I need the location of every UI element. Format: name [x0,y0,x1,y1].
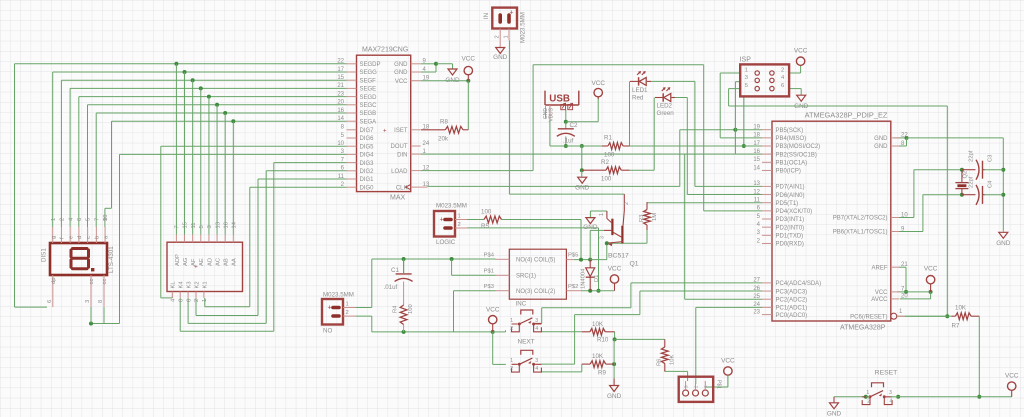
resistor R7 [955,313,971,320]
svg-text:R10: R10 [597,337,609,344]
svg-text:DIG3: DIG3 [360,161,375,167]
svg-text:PB7(XTAL2/TOSC2): PB7(XTAL2/TOSC2) [833,216,888,222]
switch SET S2 [521,350,533,355]
svg-text:DOUT: DOUT [391,144,408,150]
svg-text:GND: GND [827,411,842,417]
svg-text:12: 12 [753,189,760,195]
ground [496,48,505,54]
svg-text:AA: AA [232,258,238,266]
wire DIG3-K4 net [274,162,347,164]
svg-text:14: 14 [753,165,760,171]
svg-text:AD: AD [207,258,213,266]
svg-text:PD2(INT0): PD2(INT0) [776,225,805,231]
svg-text:K2: K2 [194,281,200,288]
connector K1 LED display header [167,242,243,291]
svg-text:P$1: P$1 [484,269,494,275]
wire relay P$5 row [574,259,590,261]
svg-text:PC3(ADC3): PC3(ADC3) [776,289,808,295]
wire SEGE net [70,87,346,89]
wire Q1 collector gnd link [590,210,607,212]
svg-text:100: 100 [601,176,612,183]
svg-text:LED1: LED1 [632,87,648,94]
svg-text:P$4: P$4 [484,253,495,259]
svg-text:12: 12 [423,165,430,171]
svg-text:PC4(ADC4/SDA): PC4(ADC4/SDA) [776,281,822,287]
svg-text:GND: GND [874,144,888,150]
svg-text:C3: C3 [988,155,994,162]
svg-text:LOAD: LOAD [391,169,408,175]
svg-text:3: 3 [535,318,538,324]
wire SEGF net [61,79,346,81]
wire NEXT pin4 - R10 [541,331,582,333]
capacitor C2 [558,128,574,130]
wire DIG1-K2 net [258,178,347,180]
svg-text:15: 15 [337,75,344,81]
connector IN M023.5MM [492,8,517,29]
wire SEGA net [112,120,347,122]
svg-text:1: 1 [510,318,513,324]
wire AREF to VCC [899,266,906,268]
svg-text:VCC: VCC [721,358,735,365]
svg-text:3: 3 [889,390,892,396]
svg-text:SEGC: SEGC [360,103,378,109]
wire SEGDP net [15,63,347,65]
diode D1 1N4004 [589,260,591,268]
svg-text:RESET: RESET [875,370,898,377]
svg-text:R5: R5 [481,223,489,230]
svg-text:23: 23 [337,91,344,97]
vcc [1008,382,1016,390]
svg-text:SRC(1): SRC(1) [516,274,536,280]
svg-text:DIG4: DIG4 [360,153,375,159]
svg-text:24: 24 [753,302,760,308]
svg-text:LED2: LED2 [657,103,673,110]
usb connector J2 [545,91,579,105]
svg-text:2: 2 [624,202,630,205]
svg-text:10: 10 [901,212,908,218]
wire VCC AVCC [897,291,931,293]
svg-text:21: 21 [337,83,344,89]
crystal Q2 [955,182,968,184]
svg-text:R7: R7 [952,323,960,330]
svg-text:VBUS: VBUS [548,107,554,121]
svg-text:6: 6 [186,299,192,302]
wire SCK net (MAX CLK - ISP3 - PB5) [427,185,679,187]
ground [797,95,806,101]
svg-text:CLK: CLK [396,185,408,191]
wire reset button rail [834,396,866,398]
svg-text:PB3(MOSI/OC2): PB3(MOSI/OC2) [776,144,821,150]
svg-text:PD1(TXD): PD1(TXD) [776,234,804,240]
svg-text:KL: KL [171,281,177,289]
ground [586,218,595,224]
svg-text:VCC: VCC [794,47,808,54]
svg-text:10: 10 [103,215,109,221]
wire DIN net [421,153,736,155]
svg-text:C4: C4 [988,180,994,188]
transistor Q1 BC517 [606,211,608,219]
svg-text:25: 25 [753,294,760,300]
svg-text:5: 5 [199,225,205,228]
wire PC6 reset net [896,315,947,317]
svg-text:Green: Green [657,110,675,117]
svg-text:PB2(SS/OC1B): PB2(SS/OC1B) [776,152,817,158]
relay K2 INC [509,249,566,299]
svg-text:PD3(INT1): PD3(INT1) [776,217,805,223]
svg-text:PC0(ADC0): PC0(ADC0) [776,313,808,319]
svg-text:15: 15 [183,222,189,228]
svg-text:cc: cc [89,279,95,285]
svg-text:M023.5MM: M023.5MM [436,203,467,210]
svg-text:PB5(SCK): PB5(SCK) [776,128,804,134]
wire NEXT pin3 to PC4 [534,322,542,324]
svg-text:8: 8 [98,300,104,303]
ic ATMEGA328P U2 [772,121,891,321]
svg-text:3: 3 [207,225,213,228]
svg-text:e: e [68,236,74,239]
svg-text:16: 16 [223,222,229,228]
wire LOGIC pin1 - R5 - relay P$5 [467,219,484,221]
svg-text:22pf: 22pf [969,176,975,188]
svg-text:DIN: DIN [397,152,407,158]
svg-text:2: 2 [510,366,513,372]
svg-text:P$5: P$5 [568,253,578,259]
svg-text:ISET: ISET [394,128,408,134]
svg-text:AVCC: AVCC [871,297,888,303]
svg-text:1: 1 [745,68,748,74]
svg-text:P$2: P$2 [568,284,578,290]
svg-text:ATMEGA328P: ATMEGA328P [840,325,886,332]
wire DIG2-K3 net [266,170,346,172]
resistor R5 [484,216,502,223]
wire MOSI net (ISP4 - R1 - PB3) [743,96,745,146]
svg-text:PD5(T1): PD5(T1) [776,201,799,207]
svg-text:7: 7 [175,225,181,228]
wire ISP6 to GND [789,88,801,90]
svg-text:PB1(OC1A): PB1(OC1A) [776,161,808,167]
svg-text:SEGE: SEGE [360,87,377,93]
svg-text:13: 13 [423,182,430,188]
svg-text:PB0(ICP): PB0(ICP) [776,169,801,175]
svg-text:2: 2 [867,398,870,404]
svg-text:PB4(MISO): PB4(MISO) [776,136,807,142]
svg-text:GND: GND [394,62,408,68]
svg-text:g: g [51,236,57,239]
wire ATMEGA GND pins [894,137,907,139]
svg-text:D1: D1 [594,275,600,282]
svg-text:NO(4) COIL(5): NO(4) COIL(5) [516,258,555,264]
wire IN pin1 to Q1 collector [508,40,510,194]
wire VCC to buttons [492,324,494,332]
vcc [489,316,497,324]
svg-text:VCC: VCC [486,307,500,314]
connector LOGIC M023.5MM [434,211,455,237]
svg-text:c: c [86,236,92,239]
svg-text:26: 26 [753,286,760,292]
svg-text:INC: INC [516,301,527,308]
connector NO M023.5MM [322,299,343,325]
svg-text:GND: GND [874,136,888,142]
svg-text:SEGF: SEGF [360,78,377,84]
wire XTAL1 net [894,231,923,233]
svg-text:1: 1 [346,302,349,308]
svg-text:PC1(ADC1): PC1(ADC1) [776,306,808,312]
svg-text:R9: R9 [598,370,606,377]
svg-text:VCC: VCC [924,266,938,273]
wire SET pin4 - R9 [541,371,582,373]
svg-text:10: 10 [337,141,344,147]
wire LED2 connections [630,169,655,171]
svg-text:22pf: 22pf [969,150,975,162]
svg-text:BC517: BC517 [608,253,629,260]
svg-text:NO: NO [323,328,332,335]
resistor R3 [646,202,648,210]
led LED2 [662,93,664,101]
wire SEGD net [79,96,347,98]
wire MAX GND pins to GND [421,63,436,65]
svg-text:+: + [509,10,513,17]
svg-text:DIG7: DIG7 [360,128,375,134]
vcc [464,66,472,74]
svg-text:R2: R2 [601,159,609,166]
capacitor C1 [396,273,412,275]
wire R2/GND branch [581,146,583,170]
svg-text:18: 18 [423,125,430,131]
wire SEGG net [53,71,347,73]
svg-text:AC: AC [215,258,221,266]
vcc [610,275,618,283]
svg-text:.01uf: .01uf [384,284,398,291]
wire RESET net (ISP5 - PC6 - R7) [729,88,741,90]
svg-text:20: 20 [337,100,344,106]
capacitor C3 [982,161,984,179]
svg-text:K1: K1 [202,281,208,288]
svg-text:DIG2: DIG2 [360,169,375,175]
svg-text:VCC: VCC [462,56,476,63]
svg-text:2: 2 [458,222,461,228]
ground [999,232,1008,238]
svg-text:Red: Red [632,95,644,102]
svg-text:AE: AE [199,258,205,266]
ground [830,403,839,409]
svg-text:13: 13 [215,222,221,228]
svg-text:17: 17 [753,141,760,147]
wire Q1 base [589,230,591,259]
svg-text:GND: GND [996,240,1011,247]
svg-text:VCC: VCC [591,80,605,87]
svg-text:ADP: ADP [175,254,181,266]
svg-text:VCC: VCC [608,266,622,273]
svg-text:+: + [383,128,387,134]
svg-text:C2: C2 [570,122,578,129]
svg-text:1: 1 [458,214,461,220]
svg-text:LOGIC: LOGIC [436,239,456,246]
wire NO pin1 - C1 - relay SRC [356,307,372,309]
svg-text:19: 19 [423,76,430,82]
svg-text:K3: K3 [187,281,193,288]
vcc [796,57,804,65]
svg-text:1: 1 [510,358,513,364]
capacitor C4 [982,186,984,204]
wire SET pin3 to PC3 [541,363,575,365]
wire LED1 right to PD7 [651,80,695,82]
vcc [594,88,602,96]
svg-text:d: d [77,236,83,239]
svg-text:C1: C1 [391,267,399,274]
svg-text:16: 16 [753,149,760,155]
svg-text:R8: R8 [440,119,448,126]
svg-text:PB6(XTAL1/TOSC1): PB6(XTAL1/TOSC1) [833,230,888,236]
svg-text:GND: GND [583,224,598,231]
svg-text:1N4004: 1N4004 [581,268,587,289]
svg-text:1: 1 [202,299,208,302]
wire LED1 left drop [629,81,631,146]
svg-text:27: 27 [753,278,760,284]
wire DIG5-KL net [161,145,347,147]
svg-text:22: 22 [337,59,344,65]
svg-text:10K: 10K [592,321,604,328]
svg-text:1: 1 [599,213,605,216]
svg-text:7: 7 [94,218,100,221]
wire MISO net (ISP1 - PB4) [720,72,740,74]
wire R10 junction to R6 [615,338,665,340]
svg-text:SEGA: SEGA [360,119,377,125]
svg-text:M023.5MM: M023.5MM [520,12,527,43]
svg-text:8: 8 [178,299,184,302]
resistor R4 [400,305,407,325]
wire LOGIC pin2 drop [467,227,599,229]
svg-text:22: 22 [901,133,908,139]
wire SEGB net [96,112,346,114]
svg-text:17: 17 [337,67,344,73]
svg-text:PD7(AIN1): PD7(AIN1) [776,185,805,191]
svg-text:2: 2 [194,299,200,302]
svg-text:11: 11 [338,174,345,180]
svg-text:R6: R6 [657,359,663,366]
svg-text:AG: AG [183,257,189,266]
svg-text:+: + [439,217,443,224]
svg-text:15: 15 [753,157,760,163]
svg-text:DIS1: DIS1 [41,248,48,262]
wire R1 row to PB3 [630,145,744,147]
wire DIG4-CC net [120,153,347,155]
wire connector pin3 to VCC [705,386,712,388]
svg-text:AREF: AREF [871,265,887,271]
svg-text:10K: 10K [955,305,967,312]
svg-text:VCC: VCC [875,290,888,296]
wire PC2 net [684,154,686,299]
svg-text:4: 4 [890,398,893,404]
wire VBUS-C2-VCC net [565,110,567,122]
svg-text:6: 6 [781,83,784,89]
resistor R8 [421,129,445,131]
svg-text:2: 2 [510,326,513,332]
svg-text:3: 3 [535,358,538,364]
svg-text:ISP: ISP [740,57,752,64]
svg-text:DIG1: DIG1 [360,177,375,183]
svg-text:R1: R1 [604,135,612,142]
svg-text:2: 2 [346,310,349,316]
vcc [724,367,732,375]
svg-text:1: 1 [703,385,708,388]
svg-text:1: 1 [51,218,57,221]
svg-text:5: 5 [745,83,748,89]
svg-text:DIG0: DIG0 [360,185,375,191]
svg-text:P$3: P$3 [484,284,494,290]
svg-text:20k: 20k [438,136,449,143]
svg-text:11: 11 [191,222,197,228]
svg-text:USB: USB [549,94,570,105]
svg-text:LTS-4301: LTS-4301 [108,246,115,273]
ground [448,69,457,75]
svg-text:cc: cc [102,279,108,285]
svg-text:b: b [95,236,101,239]
svg-text:11: 11 [754,198,761,204]
svg-text:P$1: P$1 [716,380,722,389]
svg-text:R3: R3 [639,215,645,222]
svg-text:+: + [194,264,198,271]
svg-text:4: 4 [535,326,538,332]
svg-text:3: 3 [85,300,91,303]
svg-text:dp: dp [51,278,57,284]
wire XTAL2 net [894,217,914,219]
display DIS1 7-segment [50,243,107,275]
svg-text:14: 14 [232,221,238,228]
svg-text:6: 6 [77,218,83,221]
svg-text:SEGG: SEGG [360,70,378,76]
wire MAX VCC pin [421,80,469,82]
svg-text:100: 100 [481,209,492,216]
svg-text:2: 2 [693,385,698,388]
resistor R2 [582,169,606,171]
wire NO pin2 - R4 - rail [356,315,372,317]
svg-text:VCC: VCC [395,79,408,85]
svg-text:AB: AB [224,258,230,266]
svg-text:Q1: Q1 [630,261,639,268]
svg-text:1M: 1M [652,213,658,221]
svg-text:K4: K4 [179,281,185,289]
svg-text:.1uf: .1uf [563,138,574,145]
wire emitter to R3 bottom [607,242,647,244]
svg-text:100: 100 [408,304,414,314]
svg-text:PD0(RXD): PD0(RXD) [776,242,804,248]
resistor R6 [664,339,666,347]
svg-text:4: 4 [535,366,538,372]
svg-text:R4: R4 [393,305,399,313]
svg-text:MAX: MAX [390,195,406,202]
svg-text:NEXT: NEXT [518,339,535,346]
svg-text:MAX7219CNG: MAX7219CNG [362,47,408,54]
led LED1 [638,77,640,85]
svg-text:13: 13 [753,181,760,187]
svg-text:DIG5: DIG5 [360,144,375,150]
svg-text:23: 23 [753,309,760,315]
svg-text:19: 19 [753,125,760,131]
connector ISP header [740,64,789,96]
svg-text:PC2(ADC2): PC2(ADC2) [776,297,808,303]
svg-text:3: 3 [684,385,689,388]
svg-text:2: 2 [781,68,784,74]
wire R6 bottom to connector [664,370,666,373]
svg-text:NO(3) COIL(2): NO(3) COIL(2) [516,289,555,295]
ground [578,177,587,183]
svg-text:VCC: VCC [1005,373,1019,380]
wire ISP2 to VCC [789,72,801,74]
wire LOAD net (MAX LOAD - PD4) [421,170,533,172]
wire diode / P$2 / VCC row [581,290,615,292]
wire R3 to PD5 [647,202,762,204]
switch NEXT S1 [521,310,533,315]
